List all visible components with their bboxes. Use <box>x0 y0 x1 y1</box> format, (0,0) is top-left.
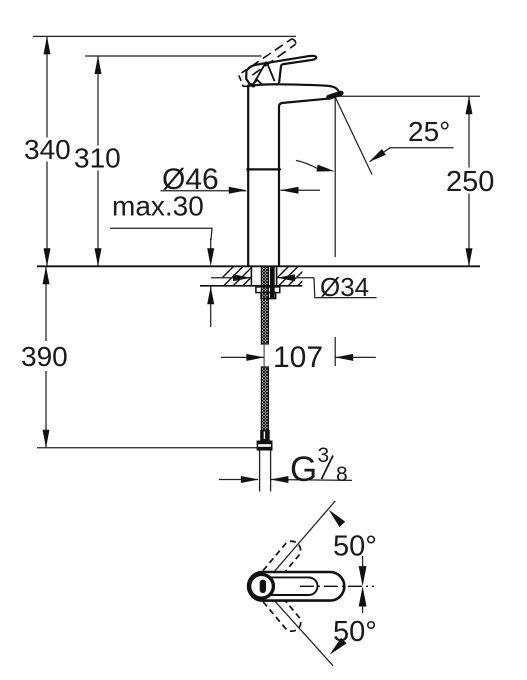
faucet body left edge <box>247 86 249 266</box>
vertical extension line from spout tip <box>334 98 336 258</box>
svg-text:390: 390 <box>21 341 68 372</box>
extension line 310 level <box>85 55 262 57</box>
svg-text:310: 310 <box>74 143 121 174</box>
mounting hole right edge <box>276 266 278 286</box>
body joint line <box>247 168 280 170</box>
Ø34 label leader <box>314 278 377 298</box>
svg-text:25°: 25° <box>408 116 450 147</box>
connection pipe <box>259 451 261 492</box>
locking nut under washer <box>261 293 276 299</box>
pivot leg <box>253 80 263 84</box>
dimension line 390 <box>45 266 47 341</box>
handle rotated -50° (dashed stub) <box>251 576 304 635</box>
50° centre down arrow <box>362 556 364 570</box>
threaded shank (crosshatched) <box>261 267 268 345</box>
raised lever tip (dashed) <box>292 39 296 45</box>
knob (top view) <box>250 574 274 598</box>
max.30 lower arrow <box>210 286 212 327</box>
pivot internal edge B <box>267 63 274 81</box>
svg-text:50°: 50° <box>333 616 377 648</box>
svg-text:max.30: max.30 <box>112 191 204 222</box>
svg-text:250: 250 <box>446 166 494 198</box>
handle rotated +50° (dashed stub) <box>251 538 304 597</box>
50° lower radial line <box>262 586 334 666</box>
raised lever rear blade (dashed) <box>239 70 255 87</box>
pivot internal edge A <box>254 62 267 84</box>
svg-text:107: 107 <box>273 341 323 374</box>
Ø34 dimension arrows <box>211 277 251 279</box>
Ø46 right arrow <box>281 189 321 191</box>
curved leader arrow to tip line <box>296 160 318 168</box>
washer under deck <box>256 287 280 293</box>
short extension line at spout-tip x <box>334 337 336 366</box>
lever pivot block <box>246 68 252 85</box>
mounting hole left edge <box>250 266 252 286</box>
svg-text:50°: 50° <box>333 531 377 563</box>
svg-text:Ø34: Ø34 <box>320 272 369 302</box>
handle outline (top view) <box>248 572 344 601</box>
cap + spout top edge <box>250 84 339 91</box>
raised lever (dashed) upper side <box>251 39 292 67</box>
deck hatching left <box>214 266 263 286</box>
107 dimension right arrow <box>335 356 376 358</box>
knob slot <box>260 580 266 593</box>
50° upper radial line <box>262 501 336 586</box>
dimension line 340 <box>46 36 48 137</box>
dimension line 250 <box>468 96 470 167</box>
hose end connector <box>260 430 270 441</box>
raised lever (dashed) lower side <box>252 44 295 75</box>
hose end nut <box>257 441 273 451</box>
centre line <box>300 585 374 587</box>
dimension line 310 <box>97 56 99 146</box>
extension line 250 level <box>338 95 481 97</box>
flexible hose (braided, lower) <box>261 367 268 430</box>
svg-text:3: 3 <box>318 444 330 467</box>
deck / counter top line <box>37 265 480 267</box>
spout aerator nib (black) <box>329 93 341 97</box>
107 dimension left arrow <box>221 356 264 358</box>
25° slant line from spout tip <box>335 98 372 175</box>
deck hatching right <box>269 266 318 286</box>
svg-text:8: 8 <box>336 463 348 486</box>
faucet body right edge + spout underside <box>279 99 328 266</box>
svg-text:G: G <box>290 450 317 489</box>
svg-text:340: 340 <box>24 134 71 165</box>
deck bottom line <box>200 285 302 287</box>
50° centre up arrow <box>362 602 364 613</box>
lever blade <box>249 56 316 85</box>
handle top face (inner stadium) <box>252 577 318 595</box>
extension line top (340 level) <box>33 35 296 37</box>
extension line at hose end <box>37 447 257 449</box>
50° upper perp arrow <box>326 507 345 527</box>
G 3/8 dimension arrows <box>219 479 258 481</box>
50° lower perp arrow <box>327 638 347 658</box>
mounting stud (black bar) <box>270 267 275 300</box>
hose centerline at break <box>263 344 265 367</box>
